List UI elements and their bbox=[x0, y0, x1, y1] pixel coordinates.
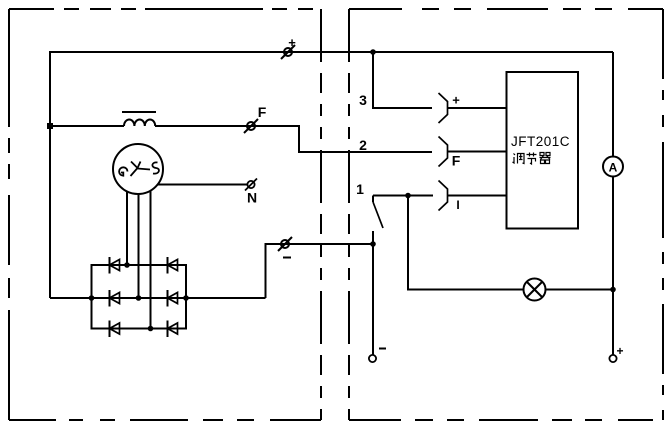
svg-text:F: F bbox=[452, 153, 461, 169]
wire: generator phase leg 3 bbox=[150, 191, 152, 329]
node: bridge right bbox=[183, 295, 189, 301]
generator inner glyph ~ (rotated) bbox=[152, 162, 159, 173]
wire: coil to F terminal and bend down bbox=[155, 126, 432, 152]
diode D6 (bottom-right) bbox=[168, 321, 178, 338]
node: phase 3 on bottom row bbox=[148, 326, 154, 332]
wire: ammeter feed down from top bus bbox=[612, 52, 614, 157]
wire: top + bus horizontal bbox=[49, 51, 613, 53]
wire: generator phase leg 2 bbox=[138, 194, 140, 298]
wire: minus line down to battery terminal bbox=[372, 244, 374, 355]
node: junction left bus / field row bbox=[47, 123, 53, 129]
svg-text:+: + bbox=[452, 93, 460, 108]
terminal - (circle with slash) bbox=[278, 237, 292, 251]
switch S (open blade to minus line) bbox=[373, 196, 383, 245]
label 调节器 (regulator, drawn glyphs) bbox=[513, 153, 551, 165]
label - (minus lead) bbox=[283, 257, 291, 259]
node: junction on top bus bbox=[370, 49, 376, 55]
diode D1 (top-left) bbox=[110, 257, 120, 274]
node: phase 2 on middle row bbox=[136, 295, 142, 301]
wire: plug row 3 drop from top bus bbox=[373, 52, 432, 108]
svg-text:F: F bbox=[258, 104, 267, 120]
wire: row 1 to regulator bbox=[448, 195, 507, 197]
svg-text:I: I bbox=[456, 198, 459, 212]
svg-text:1: 1 bbox=[356, 181, 364, 197]
inductor core bar bbox=[122, 111, 156, 113]
generator unit dashed enclosure (left box) bbox=[9, 9, 321, 420]
regulator U1 box bbox=[507, 72, 579, 229]
wire: ammeter to plus terminal bbox=[612, 177, 614, 356]
lamp HL (circle with X) bbox=[524, 279, 546, 301]
svg-text:3: 3 bbox=[359, 92, 367, 108]
svg-text:+: + bbox=[616, 344, 623, 358]
wire: row 3 to regulator bbox=[448, 107, 507, 109]
wire: lamp to ammeter line bbox=[546, 289, 614, 291]
svg-text:JFT201C: JFT201C bbox=[511, 134, 570, 149]
wire: field row to coil bbox=[50, 125, 124, 127]
diode D5 (bottom-left) bbox=[110, 321, 120, 338]
wire: lamp branch from row 1 junction bbox=[408, 196, 524, 290]
diode D3 (mid-left) bbox=[110, 290, 120, 307]
inductor: exciter field winding bbox=[124, 120, 155, 126]
connector plug row 3 bbox=[439, 93, 448, 123]
svg-text:A: A bbox=[609, 161, 618, 175]
terminal plus (open circle) bbox=[609, 355, 616, 362]
wire: DC minus row through bridge bbox=[50, 297, 266, 299]
node: lamp row / ammeter line bbox=[610, 287, 616, 293]
regulator panel dashed enclosure (right box) bbox=[349, 9, 663, 420]
node: junction row 1 bbox=[405, 193, 411, 199]
generator inner glyph G (rotated) bbox=[119, 167, 127, 175]
label - (battery minus) bbox=[379, 348, 386, 350]
connector plug row 1 bbox=[439, 181, 448, 211]
diode D4 (mid-right) bbox=[168, 290, 178, 307]
wire: left bus vertical bbox=[49, 52, 51, 298]
rectifier bridge frame bbox=[92, 265, 187, 329]
wire: row 2 to regulator bbox=[448, 151, 507, 153]
generator G circle bbox=[113, 144, 163, 194]
terminal N (circle with slash) bbox=[245, 179, 257, 191]
terminal minus (open circle) bbox=[369, 355, 376, 362]
terminal + (circle with slash) bbox=[281, 45, 295, 59]
wire: row 1 horizontal bbox=[373, 195, 433, 197]
terminal F (circle with slash) bbox=[244, 119, 258, 133]
node: phase 1 on top row bbox=[124, 262, 130, 268]
svg-text:2: 2 bbox=[359, 137, 367, 153]
wire: generator to N terminal bbox=[158, 184, 247, 186]
wire: minus lead up and right to panel bbox=[266, 244, 374, 298]
wire: generator phase leg 1 bbox=[126, 192, 128, 266]
ammeter A bbox=[603, 157, 623, 177]
connector plug row 2 bbox=[439, 137, 448, 167]
node: junction minus line / switch bbox=[370, 241, 376, 247]
node: bridge left bbox=[89, 295, 95, 301]
diode D2 (top-right) bbox=[168, 257, 178, 274]
svg-text:N: N bbox=[247, 190, 257, 206]
svg-text:+: + bbox=[288, 35, 296, 50]
generator inner glyph Y (star point) bbox=[131, 162, 151, 177]
